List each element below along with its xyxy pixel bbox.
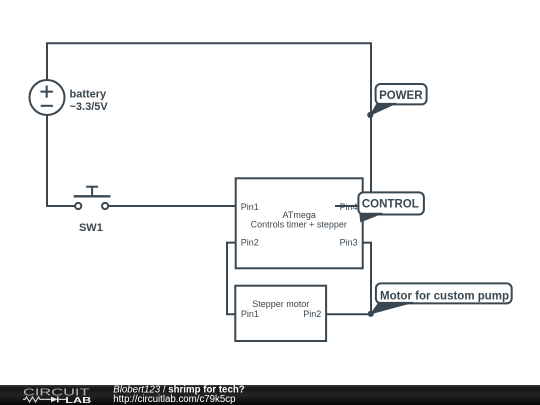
- wire: switch to ATmega Pin1: [108, 205, 236, 207]
- svg-text:SW1: SW1: [79, 222, 103, 234]
- switch SW1 (pushbutton): [74, 187, 111, 209]
- svg-text:Pin1: Pin1: [241, 202, 259, 212]
- battery V1: [30, 80, 65, 115]
- svg-text:Pin2: Pin2: [303, 309, 321, 319]
- svg-text:http://circuitlab.com/c79k5cp: http://circuitlab.com/c79k5cp: [113, 394, 235, 405]
- wire: ATmega Pin2 to stepper Pin1: [227, 243, 236, 315]
- wire: top rail from battery to POWER/CONTROL drop: [47, 43, 371, 206]
- wire: ATmega Pin3 down to motor net: [363, 243, 371, 315]
- svg-text:~3.3/5V: ~3.3/5V: [70, 101, 109, 113]
- svg-text:Pin4: Pin4: [340, 202, 358, 212]
- svg-text:Pin3: Pin3: [340, 237, 358, 247]
- svg-text:battery: battery: [70, 88, 108, 100]
- wire: Pin4 stub: [335, 205, 371, 207]
- svg-text:Pin1: Pin1: [241, 309, 259, 319]
- CircuitLab logo: [23, 388, 91, 405]
- svg-text:Pin2: Pin2: [241, 237, 259, 247]
- svg-text:POWER: POWER: [379, 90, 423, 102]
- footer bar: [0, 385, 540, 405]
- node POWER flag: [367, 84, 426, 118]
- svg-text:Controls timer + stepper: Controls timer + stepper: [251, 219, 347, 229]
- svg-text:Motor for custom pump: Motor for custom pump: [380, 290, 509, 302]
- svg-text:Stepper motor: Stepper motor: [252, 299, 309, 309]
- svg-text:LAB: LAB: [65, 395, 91, 405]
- node CONTROL flag: [358, 192, 424, 221]
- wire: stepper Pin2 to motor net junction: [326, 313, 371, 315]
- op-amp box: ATmega subcircuit U1: [236, 178, 363, 268]
- svg-text:CONTROL: CONTROL: [362, 198, 419, 210]
- Stepper motor subcircuit M1: [235, 286, 326, 341]
- wire: left rail battery to switch: [47, 115, 75, 206]
- node Motor for custom pump flag: [368, 283, 512, 317]
